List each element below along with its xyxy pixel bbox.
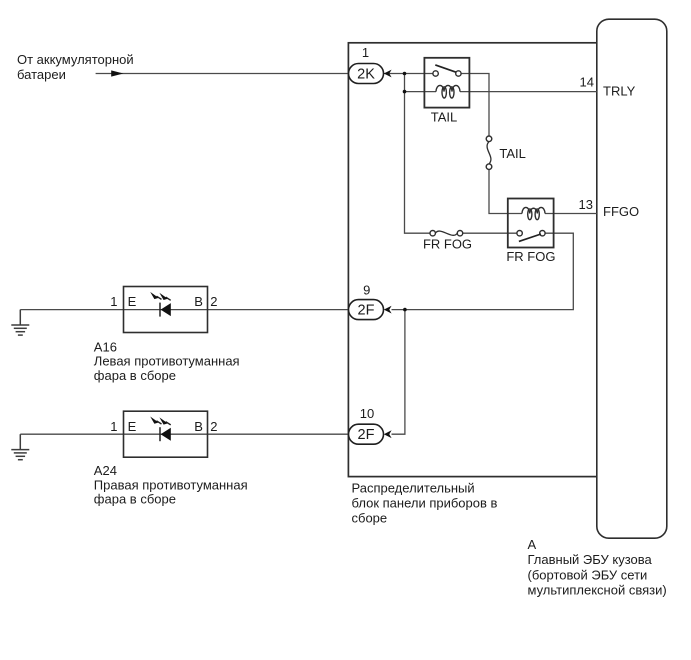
svg-text:FFGO: FFGO	[603, 204, 639, 219]
svg-text:A: A	[528, 537, 537, 552]
svg-text:13: 13	[579, 197, 593, 212]
svg-text:B: B	[194, 294, 203, 309]
svg-text:2F: 2F	[358, 427, 375, 443]
svg-text:фара в сборе: фара в сборе	[94, 492, 176, 507]
svg-text:14: 14	[580, 75, 594, 90]
svg-text:(бортовой ЭБУ сети: (бортовой ЭБУ сети	[528, 567, 648, 582]
svg-text:2: 2	[210, 294, 217, 309]
svg-text:A16: A16	[94, 340, 117, 355]
svg-text:TAIL: TAIL	[499, 146, 526, 161]
svg-text:2F: 2F	[358, 303, 375, 319]
svg-text:фара в сборе: фара в сборе	[94, 368, 176, 383]
svg-text:FR FOG: FR FOG	[423, 236, 472, 251]
svg-text:1: 1	[362, 45, 369, 60]
svg-text:сборе: сборе	[352, 511, 388, 526]
svg-text:TRLY: TRLY	[603, 83, 636, 98]
svg-text:FR FOG: FR FOG	[506, 249, 555, 264]
svg-text:мультиплексной связи): мультиплексной связи)	[528, 583, 667, 598]
svg-text:E: E	[128, 294, 137, 309]
svg-text:A24: A24	[94, 463, 117, 478]
svg-text:9: 9	[363, 282, 370, 297]
svg-text:Главный ЭБУ кузова: Главный ЭБУ кузова	[528, 552, 653, 567]
svg-text:2K: 2K	[357, 66, 375, 82]
svg-text:Левая противотуманная: Левая противотуманная	[94, 354, 240, 369]
svg-text:блок панели приборов в: блок панели приборов в	[352, 496, 498, 511]
svg-text:B: B	[194, 419, 203, 434]
svg-text:От аккумуляторной: От аккумуляторной	[17, 52, 134, 67]
svg-text:1: 1	[110, 419, 117, 434]
svg-text:батареи: батареи	[17, 67, 66, 82]
svg-text:E: E	[128, 419, 137, 434]
svg-text:Распределительный: Распределительный	[352, 480, 475, 495]
svg-text:TAIL: TAIL	[431, 109, 458, 124]
svg-text:Правая противотуманная: Правая противотуманная	[94, 478, 248, 493]
svg-text:10: 10	[360, 406, 374, 421]
svg-text:2: 2	[210, 419, 217, 434]
svg-text:1: 1	[110, 294, 117, 309]
